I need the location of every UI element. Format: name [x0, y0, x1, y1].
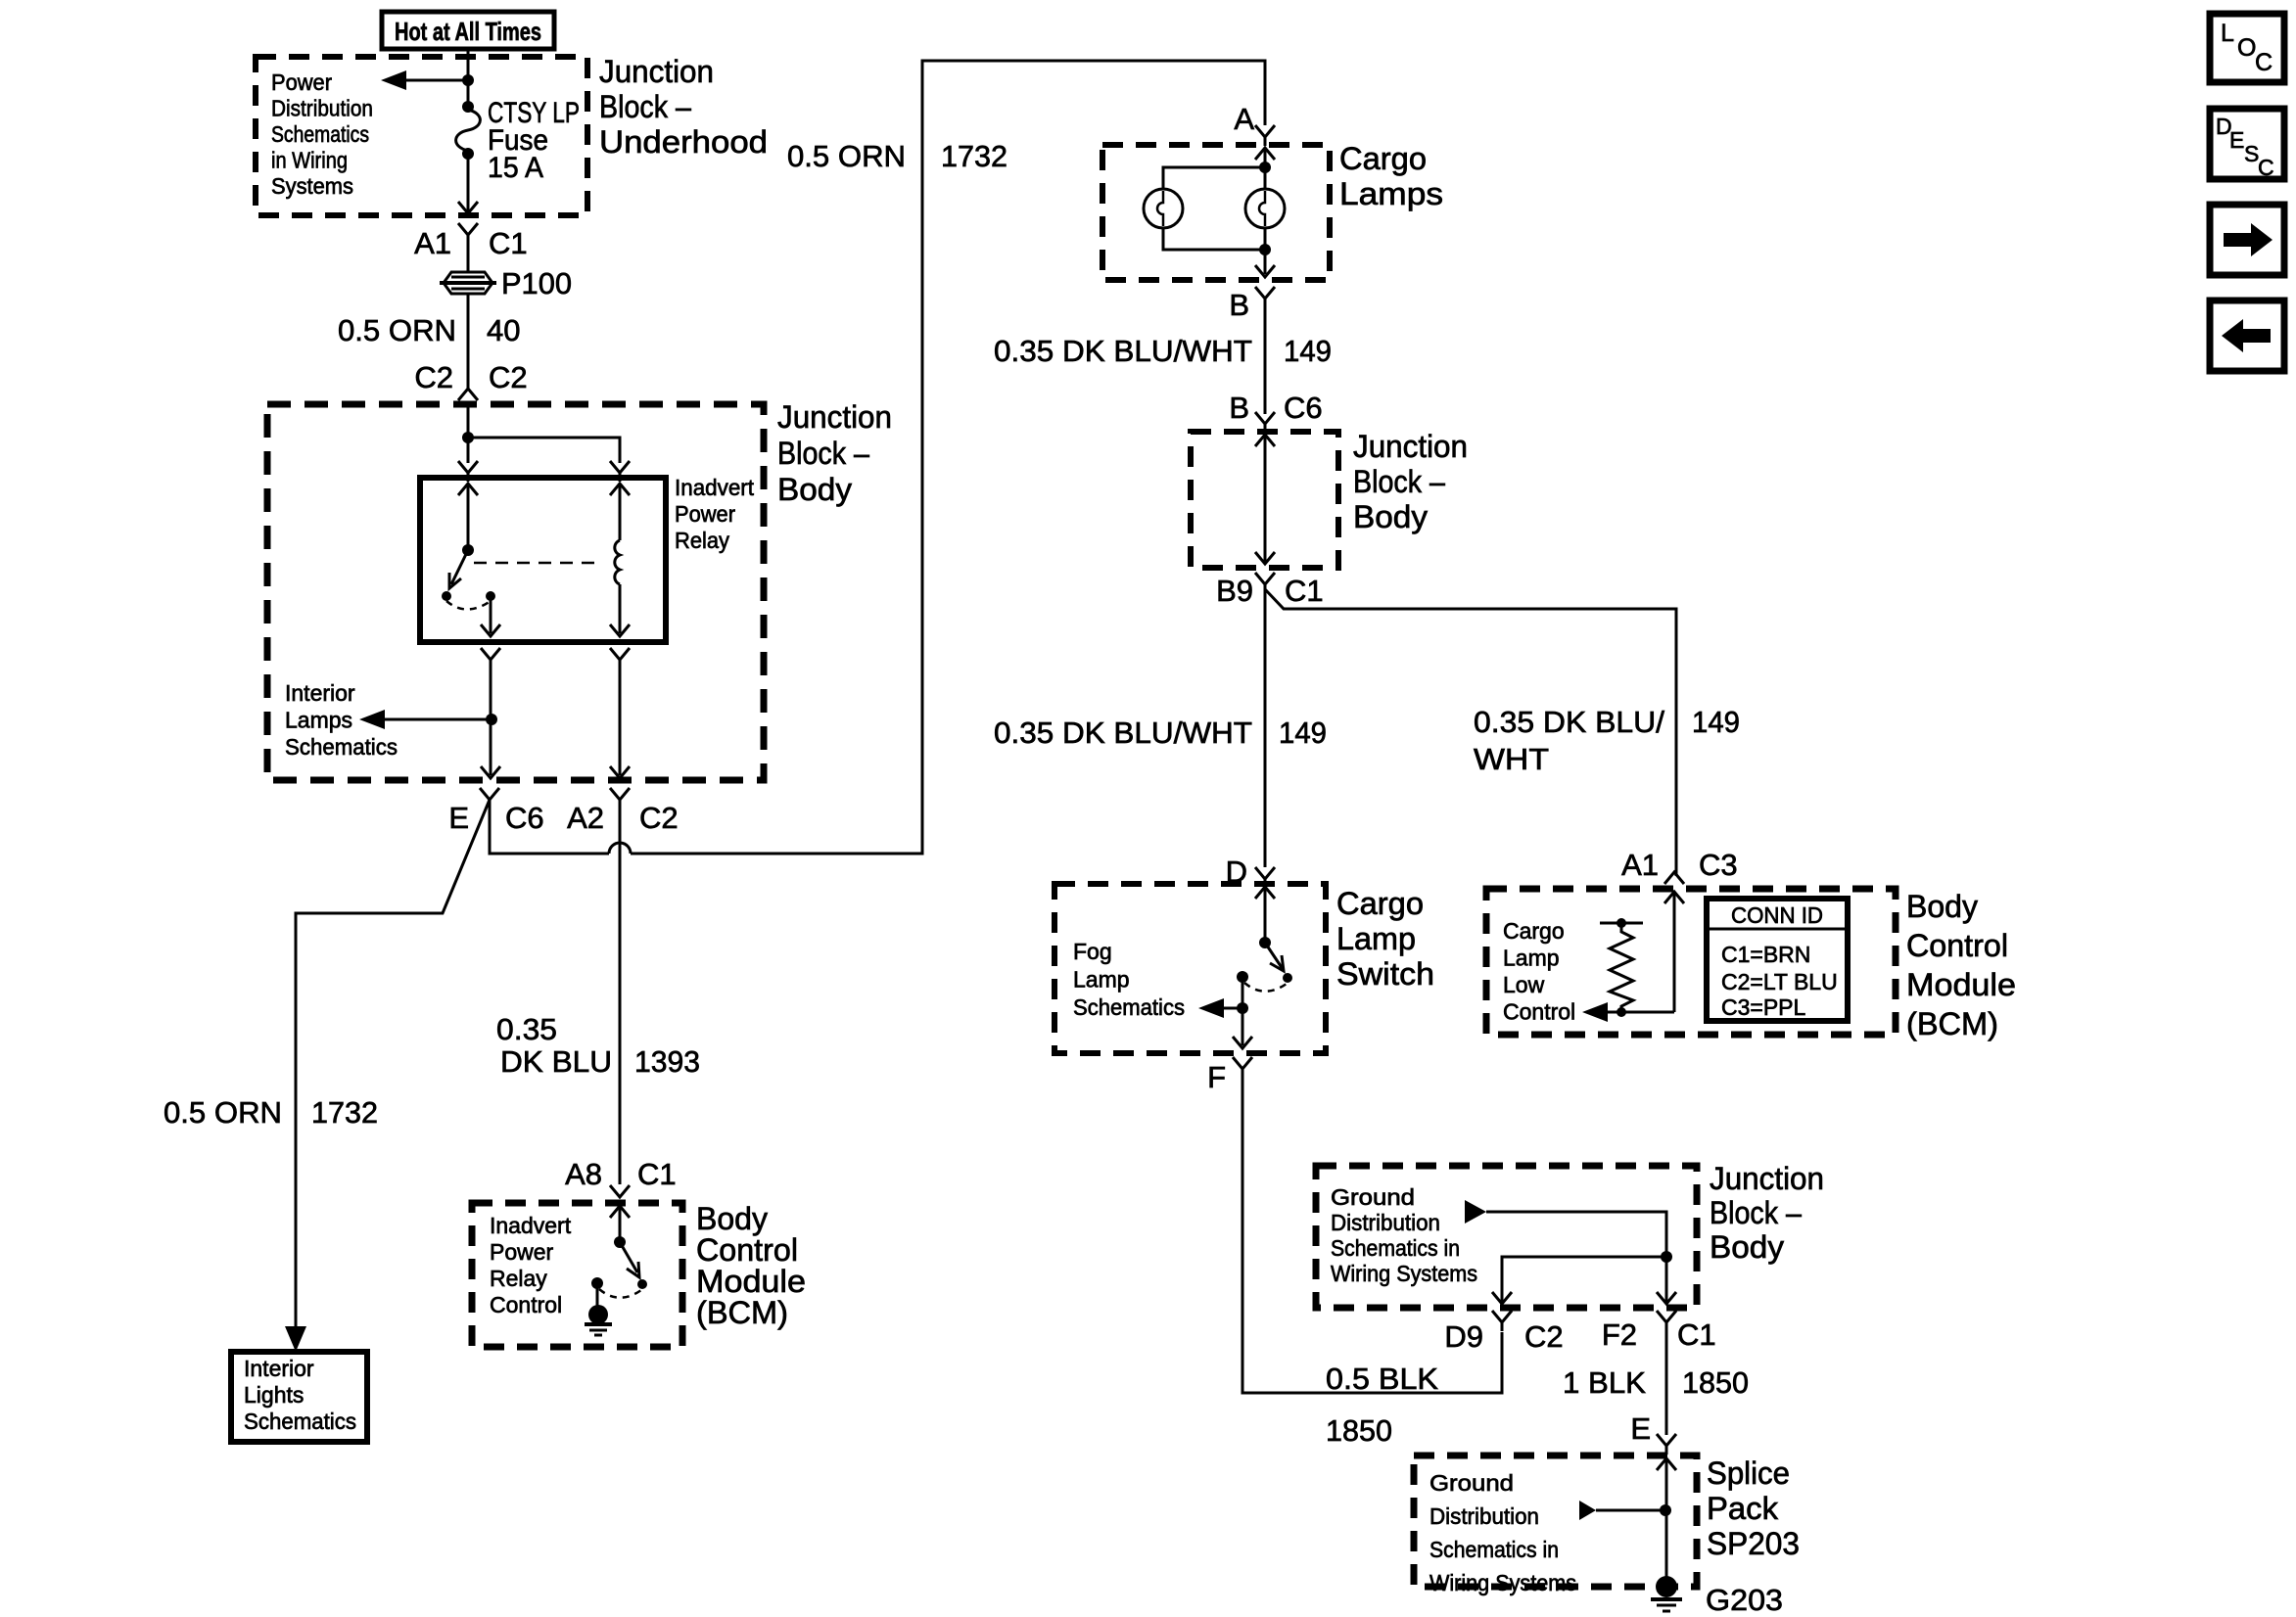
svg-text:C2: C2	[1524, 1319, 1564, 1354]
svg-text:G203: G203	[1706, 1583, 1783, 1617]
svg-text:P100: P100	[501, 266, 572, 300]
svg-text:Block –: Block –	[599, 89, 691, 124]
svg-text:0.35 DK BLU/WHT: 0.35 DK BLU/WHT	[994, 716, 1252, 750]
wire down to ground	[1665, 1458, 1668, 1580]
svg-text:Body: Body	[777, 472, 852, 507]
connector F (Y symbol)	[1233, 1057, 1252, 1078]
svg-text:Power: Power	[675, 501, 735, 527]
ground G203 symbol	[1651, 1576, 1682, 1611]
svg-text:L: L	[2221, 20, 2234, 47]
arrow up at cargo lamps boundary	[1255, 148, 1275, 160]
svg-text:Schematics: Schematics	[1073, 994, 1185, 1020]
svg-text:Schematics: Schematics	[285, 734, 398, 760]
arrow up inside relay (left pin)	[458, 484, 478, 495]
wire E to Interior Lights Schematics (0.5 ORN 1732)	[296, 800, 490, 1327]
svg-text:Body: Body	[696, 1201, 768, 1236]
wire coil output down to block edge	[619, 660, 622, 775]
dashed switch throw arc	[1244, 983, 1287, 992]
svg-text:Schematics: Schematics	[244, 1409, 356, 1434]
node switch pivot dot	[1259, 937, 1271, 948]
svg-text:Junction: Junction	[1353, 429, 1468, 464]
arrow down at block edge (left)	[481, 766, 500, 778]
dashed box Junction Block - Body (ground)	[1316, 1166, 1697, 1308]
arrow up inside BCM	[610, 1206, 630, 1218]
svg-text:B: B	[1229, 391, 1249, 425]
icon back arrow box	[2210, 300, 2284, 371]
svg-text:A8: A8	[565, 1157, 602, 1191]
svg-text:Interior: Interior	[285, 680, 355, 706]
svg-text:Power: Power	[271, 69, 332, 95]
wire B9 down to cargo lamp switch (0.35 DK BLU/WHT 149)	[1264, 589, 1267, 867]
svg-text:Junction: Junction	[1710, 1161, 1824, 1196]
connector A2/C2 (Y symbol)	[610, 788, 630, 808]
svg-text:C2: C2	[489, 360, 528, 394]
wire P100 to C2 connector, circuit 0.5 ORN 40	[467, 294, 470, 389]
arrow up inside relay (coil pin)	[610, 484, 630, 495]
connector B (Y symbol)	[1255, 287, 1275, 307]
svg-text:1850: 1850	[1326, 1413, 1392, 1448]
connector D9/C2 (Y symbol)	[1492, 1311, 1512, 1331]
wire branch B9 to BCM A1/C3 (0.35 DK BLU/WHT 149)	[1265, 589, 1676, 876]
text Interior Lamps Schematics	[285, 680, 398, 760]
svg-text:Interior: Interior	[244, 1356, 314, 1381]
svg-text:Block –: Block –	[1710, 1195, 1802, 1230]
wire E branch across top to cargo lamps (0.5 ORN 1732)	[490, 800, 609, 854]
svg-text:Ground: Ground	[1429, 1470, 1514, 1496]
svg-text:0.5 ORN: 0.5 ORN	[164, 1095, 282, 1130]
wire F2 down to splice pack (1 BLK 1850)	[1665, 1327, 1668, 1435]
text Interior Lights Schematics	[244, 1356, 356, 1434]
svg-text:Lamp: Lamp	[1336, 921, 1416, 956]
connector Y into relay (left)	[458, 461, 478, 482]
wire relay output down to block edge	[490, 660, 492, 775]
svg-text:0.35: 0.35	[496, 1012, 557, 1046]
icon forward arrow box	[2210, 205, 2284, 275]
svg-text:C6: C6	[505, 801, 544, 835]
node switch pivot dot	[462, 544, 474, 556]
svg-text:Control: Control	[696, 1232, 798, 1268]
relay coil	[615, 540, 620, 584]
svg-text:C: C	[2258, 155, 2274, 180]
svg-text:Wiring Systems: Wiring Systems	[1331, 1261, 1477, 1286]
svg-text:Cargo: Cargo	[1339, 141, 1427, 176]
icon DESC box	[2210, 109, 2284, 180]
lamp right (cargo lamp bulb)	[1245, 189, 1285, 228]
relay box Inadvert Power Relay	[420, 478, 666, 642]
svg-text:O: O	[2237, 34, 2256, 62]
fuse CTSY LP 15 A (element symbol)	[456, 101, 481, 160]
svg-text:Control: Control	[1503, 999, 1575, 1025]
svg-text:Control: Control	[1906, 928, 2008, 963]
label box "Hot at All Times"	[382, 12, 554, 49]
label Junction Block - Body (ground)	[1710, 1161, 1824, 1265]
arrow down inside relay (left out)	[481, 624, 500, 636]
connector Y below relay (right)	[610, 648, 630, 669]
solid arrow from ground distribution reference (splice)	[1579, 1501, 1596, 1520]
wire into lamps	[1264, 148, 1267, 189]
node splice junction dot	[1660, 1504, 1671, 1516]
svg-text:WHT: WHT	[1474, 742, 1549, 776]
svg-text:C: C	[2255, 49, 2273, 76]
svg-text:Fog: Fog	[1073, 939, 1112, 964]
lamp left (cargo lamp bulb)	[1144, 189, 1183, 228]
svg-text:1732: 1732	[311, 1095, 378, 1130]
arrow up inside BCM boundary	[1664, 892, 1684, 903]
arrow down at switch boundary	[1233, 1037, 1252, 1048]
dashed box Cargo Lamps	[1102, 145, 1330, 280]
arrow up at boundary	[1255, 435, 1275, 446]
svg-text:C2: C2	[414, 360, 453, 394]
svg-text:0.5 ORN: 0.5 ORN	[338, 313, 456, 347]
text Ground Distribution Schematics in Wiring Systems	[1331, 1184, 1477, 1286]
svg-text:C1: C1	[1285, 574, 1324, 608]
wire branch to F2	[1665, 1257, 1668, 1302]
svg-text:Module: Module	[1906, 967, 2016, 1002]
connector Y below relay (left)	[481, 648, 500, 669]
solid arrow from ground distribution reference	[1465, 1200, 1486, 1224]
dashed box Body Control Module BCM (left)	[472, 1203, 682, 1347]
dashed box Junction Block - Body (small)	[1191, 432, 1338, 568]
wire from contact down (relay output)	[490, 600, 492, 633]
svg-text:Pack: Pack	[1707, 1491, 1779, 1526]
icon LOC box	[2210, 14, 2284, 82]
svg-text:Block –: Block –	[1353, 464, 1445, 499]
text Cargo Lamp Low Control	[1503, 918, 1575, 1025]
wire fuse to junction block boundary	[467, 154, 470, 213]
svg-text:Wiring Systems: Wiring Systems	[1429, 1570, 1576, 1595]
arrow up at switch boundary	[1255, 887, 1275, 899]
svg-text:Inadvert: Inadvert	[675, 475, 755, 500]
wire B down to junction block (0.35 DK BLU/WHT 149)	[1264, 303, 1267, 414]
svg-text:149: 149	[1284, 334, 1332, 368]
svg-text:0.5 BLK: 0.5 BLK	[1326, 1362, 1438, 1396]
wire branch to D9	[1502, 1257, 1666, 1302]
svg-text:C2=LT BLU: C2=LT BLU	[1721, 969, 1838, 994]
wire branch to left lamp	[1163, 167, 1265, 189]
svg-text:Lamps: Lamps	[285, 708, 352, 733]
label Junction Block - Body (small)	[1353, 429, 1468, 534]
connector E/C6 (Y symbol)	[480, 788, 499, 808]
wire into junction block from C2	[467, 402, 470, 438]
svg-text:Lamps: Lamps	[1339, 176, 1443, 211]
node switch contact dot (left)	[442, 591, 451, 601]
connector A (Y symbol)	[1255, 125, 1275, 146]
wire connector to grommet P100	[467, 240, 470, 272]
arrow down at boundary	[1255, 552, 1275, 564]
node junction dot (fog lamp branch)	[1237, 1002, 1248, 1014]
svg-text:149: 149	[1692, 705, 1740, 739]
node junction dot above fuse	[462, 74, 474, 86]
label Junction Block - Underhood	[599, 54, 768, 160]
svg-text:Low: Low	[1503, 972, 1545, 997]
text Inadvert Power Relay Control	[490, 1213, 572, 1317]
wire lamps to boundary	[1264, 228, 1267, 274]
label Body Control Module (BCM) right	[1906, 889, 2016, 1041]
label Inadvert Power Relay	[675, 475, 755, 553]
connector E (Y symbol)	[1657, 1434, 1676, 1455]
svg-text:Lamp: Lamp	[1503, 946, 1560, 971]
relay switch arm with arrowhead	[449, 550, 468, 588]
connector Y into relay (right)	[610, 461, 630, 482]
svg-text:D9: D9	[1444, 1319, 1483, 1354]
arrow up at splice boundary	[1657, 1458, 1676, 1470]
dashed box Body Control Module BCM (right)	[1486, 889, 1896, 1035]
svg-text:Body: Body	[1710, 1229, 1784, 1265]
svg-text:C3=PPL: C3=PPL	[1721, 994, 1806, 1020]
label Junction Block - Body	[777, 399, 892, 507]
wire contact to ground	[596, 1283, 599, 1308]
svg-text:Schematics in: Schematics in	[1331, 1235, 1460, 1261]
connector A1/C3 (chevron)	[1664, 872, 1684, 884]
resistor (cargo lamp low control pull-up)	[1600, 918, 1643, 1012]
wire coil to relay bottom	[619, 584, 622, 633]
svg-text:Body: Body	[1906, 889, 1978, 924]
arrow down at boundary (D9)	[1492, 1292, 1512, 1304]
svg-text:(BCM): (BCM)	[1906, 1006, 1998, 1041]
wire arrow to Interior Lamps Schematics reference	[359, 710, 492, 729]
wire from Hot at All Times down to fuse	[467, 49, 470, 110]
connector D (Y symbol)	[1255, 867, 1275, 888]
node junction dot (lamp return)	[1259, 244, 1271, 255]
dashed box Splice Pack SP203	[1414, 1455, 1697, 1587]
dashed box Cargo Lamp Switch	[1054, 884, 1326, 1053]
svg-text:SP203: SP203	[1707, 1526, 1800, 1561]
svg-text:DK BLU: DK BLU	[500, 1044, 612, 1079]
svg-text:Module: Module	[696, 1264, 806, 1299]
svg-text:0.35 DK BLU/WHT: 0.35 DK BLU/WHT	[994, 334, 1252, 368]
arrow at dashed boundary (down)	[458, 202, 478, 213]
svg-text:A1: A1	[414, 226, 451, 260]
svg-text:40: 40	[487, 313, 520, 347]
connector A1/C1 (Y symbol)	[458, 223, 478, 244]
wire to switch pivot	[1264, 887, 1267, 943]
ground symbol inside BCM	[585, 1305, 612, 1335]
svg-text:Systems: Systems	[271, 173, 353, 199]
wire contact down	[1242, 977, 1244, 1045]
CONN ID table	[1707, 899, 1848, 1021]
node contact dot (right)	[1283, 973, 1292, 983]
svg-text:B: B	[1229, 288, 1249, 322]
connector B/C6 (Y symbol)	[1255, 412, 1275, 433]
wire continues to top right	[631, 61, 1265, 854]
wire to switch pivot	[619, 1206, 622, 1242]
svg-text:C1: C1	[1677, 1317, 1716, 1352]
svg-text:F: F	[1207, 1060, 1226, 1094]
svg-text:C1: C1	[637, 1157, 677, 1191]
wire arrow to Fog Lamp Schematics reference	[1198, 998, 1242, 1018]
svg-text:B9: B9	[1216, 574, 1253, 608]
svg-text:1393: 1393	[634, 1044, 700, 1079]
node switch pivot dot	[614, 1236, 626, 1248]
node switch contact dot (right)	[486, 591, 495, 601]
label CTSY LP Fuse 15 A	[488, 97, 580, 184]
node junction dot to interior lamps	[486, 714, 497, 725]
svg-text:0.35 DK BLU/: 0.35 DK BLU/	[1474, 705, 1664, 739]
solid arrow into Interior Lights Schematics	[285, 1326, 306, 1352]
node contact dot (right)	[637, 1279, 647, 1289]
wire A2 down to BCM (0.35 DK BLU 1393)	[619, 800, 622, 1184]
dashed switch throw arc	[446, 601, 491, 610]
dashed switch throw arc	[599, 1289, 641, 1298]
wire to relay switch side	[467, 438, 470, 463]
svg-text:(BCM): (BCM)	[696, 1295, 788, 1330]
svg-text:Relay: Relay	[490, 1266, 547, 1291]
svg-text:Cargo: Cargo	[1503, 918, 1565, 944]
text Power Distribution Schematics in Wiring Systems	[271, 69, 373, 199]
svg-text:C1: C1	[489, 226, 528, 260]
svg-text:Body: Body	[1353, 499, 1428, 534]
connector F2/C1 (Y symbol)	[1657, 1311, 1676, 1331]
svg-text:1 BLK: 1 BLK	[1563, 1365, 1646, 1400]
node contact dot (left)	[591, 1277, 603, 1289]
svg-text:0.5 ORN: 0.5 ORN	[787, 139, 906, 173]
svg-text:Schematics: Schematics	[271, 121, 369, 147]
label Cargo Lamp Switch	[1336, 886, 1434, 992]
node resistor bottom junction dot	[1617, 1007, 1626, 1017]
svg-text:Distribution: Distribution	[271, 96, 373, 121]
wire through junction block	[1264, 435, 1267, 564]
connector A8/C1 (Y symbol)	[610, 1185, 630, 1197]
svg-text:A1: A1	[1621, 848, 1659, 882]
wire arrow to Power Distribution Schematics reference	[381, 70, 468, 90]
svg-text:Lights: Lights	[244, 1382, 304, 1408]
svg-text:Splice: Splice	[1707, 1455, 1790, 1491]
wire down inside BCM to resistor line	[1673, 892, 1676, 1012]
svg-text:Ground: Ground	[1331, 1184, 1415, 1210]
connector C2/C2 (chevron)	[458, 389, 478, 400]
node junction dot (lamp branch)	[1259, 162, 1271, 173]
wire F down and right to D9 (0.5 BLK 1850)	[1242, 1074, 1502, 1393]
svg-text:E: E	[448, 801, 469, 835]
label Cargo Lamps	[1339, 141, 1443, 211]
wire left lamp to bottom junction	[1163, 228, 1265, 250]
wire horizontal to cargo lamp low control with arrowhead	[1582, 1002, 1674, 1022]
svg-text:Distribution: Distribution	[1331, 1210, 1440, 1235]
dashed mechanical link to coil	[474, 562, 602, 565]
svg-text:Hot at All Times: Hot at All Times	[395, 17, 541, 46]
arrow down at boundary (F2)	[1657, 1292, 1676, 1304]
wire reference arrow to splice	[1596, 1509, 1665, 1512]
svg-text:in Wiring: in Wiring	[271, 148, 348, 173]
svg-text:Switch: Switch	[1336, 956, 1434, 992]
svg-text:Distribution: Distribution	[1429, 1503, 1539, 1529]
svg-text:Block –: Block –	[777, 436, 869, 471]
svg-text:Control: Control	[490, 1292, 562, 1317]
svg-text:C6: C6	[1284, 391, 1323, 425]
svg-text:Lamp: Lamp	[1073, 967, 1130, 993]
wire to coil	[619, 484, 622, 540]
svg-text:Junction: Junction	[777, 399, 892, 435]
svg-text:E: E	[1630, 1411, 1651, 1446]
cargo lamp switch arm with arrowhead	[1265, 943, 1284, 971]
switch arm with arrowhead (BCM relay control)	[620, 1242, 639, 1277]
arrow down at cargo lamps boundary	[1255, 265, 1275, 277]
svg-text:E: E	[2229, 127, 2244, 153]
arrow down inside relay (coil out)	[610, 624, 630, 636]
node junction dot	[462, 432, 474, 443]
svg-text:Power: Power	[490, 1239, 554, 1265]
dashed box Junction Block - Body	[267, 404, 764, 780]
svg-text:C3: C3	[1699, 848, 1738, 882]
svg-text:C1=BRN: C1=BRN	[1721, 942, 1810, 967]
svg-text:Junction: Junction	[599, 54, 714, 89]
svg-text:15 A: 15 A	[488, 152, 543, 184]
svg-text:A: A	[1234, 102, 1254, 136]
wire hop over A2 wire	[609, 843, 631, 854]
text Fog Lamp Schematics	[1073, 939, 1185, 1020]
grommet P100 symbol	[440, 272, 496, 294]
svg-text:Underhood: Underhood	[599, 124, 768, 160]
label Body Control Module (BCM)	[696, 1201, 806, 1330]
dashed box Power Distribution Schematics in Wiring Systems	[256, 57, 587, 215]
arrow down at block edge (right)	[610, 766, 630, 778]
svg-text:C2: C2	[639, 801, 679, 835]
svg-text:CONN ID: CONN ID	[1731, 902, 1823, 928]
wire to switch pivot	[467, 484, 470, 550]
node contact dot (left)	[1237, 971, 1248, 983]
wire branch to relay coil side	[468, 438, 620, 463]
svg-text:A2: A2	[567, 801, 604, 835]
connector B9/C1 (Y symbol)	[1255, 573, 1275, 593]
wire from reference arrow right and down	[1486, 1212, 1666, 1257]
svg-text:1732: 1732	[941, 139, 1007, 173]
svg-text:Inadvert: Inadvert	[490, 1213, 572, 1238]
reference box Interior Lights Schematics	[231, 1352, 367, 1442]
svg-text:Relay: Relay	[675, 528, 729, 553]
svg-text:Cargo: Cargo	[1336, 886, 1424, 921]
svg-text:Schematics in: Schematics in	[1429, 1537, 1559, 1562]
label Splice Pack SP203	[1707, 1455, 1800, 1561]
svg-text:F2: F2	[1602, 1317, 1637, 1352]
node junction dot	[1661, 1251, 1672, 1263]
text Ground Distribution Schematics in Wiring Systems (splice)	[1429, 1470, 1576, 1595]
svg-text:149: 149	[1279, 716, 1327, 750]
svg-text:1850: 1850	[1682, 1365, 1749, 1400]
